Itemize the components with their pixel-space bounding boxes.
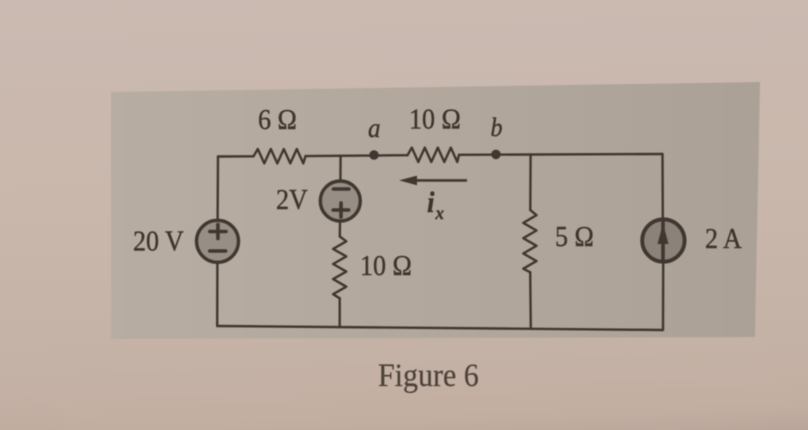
resistor R 5ohm (vertical zigzag) bbox=[523, 210, 536, 272]
resistor R 10ohm middle (vertical zigzag) bbox=[333, 237, 346, 299]
voltage source V1 20V (circle) bbox=[197, 220, 239, 262]
wire 5-ohm branch upper bbox=[529, 154, 532, 210]
wire 5-ohm to bottom wire bbox=[529, 272, 532, 329]
wire top-left segment (corner to 6-ohm resistor) bbox=[218, 155, 254, 158]
voltage source V2 2V (circle) bbox=[320, 181, 360, 221]
figure background panel bbox=[111, 82, 760, 339]
wire 10-ohm middle to bottom wire bbox=[339, 298, 341, 327]
wire right branch upper (top wire to 2A source) bbox=[661, 154, 664, 219]
current source I1 2A (circle with up arrow) bbox=[642, 219, 684, 261]
resistor R 6ohm (horizontal zigzag) bbox=[254, 149, 306, 163]
resistor R 10ohm top (horizontal zigzag) bbox=[408, 148, 460, 162]
wire 2V source to 10-ohm resistor bbox=[339, 222, 342, 237]
node b (junction dot) bbox=[491, 150, 501, 160]
wire left branch upper (top wire down to 20V source) bbox=[216, 157, 219, 220]
wire middle branch upper (top wire to 2V source) bbox=[339, 156, 342, 180]
wire from 6-ohm to node a bbox=[306, 154, 408, 157]
wire from 10-ohm to top-right corner bbox=[459, 153, 663, 156]
current arrow i_x bbox=[399, 176, 467, 186]
wire left branch lower (20V source to bottom wire) bbox=[216, 263, 219, 327]
wire right branch lower (2A source to bottom wire) bbox=[662, 263, 665, 331]
wire bottom bbox=[217, 326, 663, 330]
node a (junction dot) bbox=[369, 150, 379, 160]
